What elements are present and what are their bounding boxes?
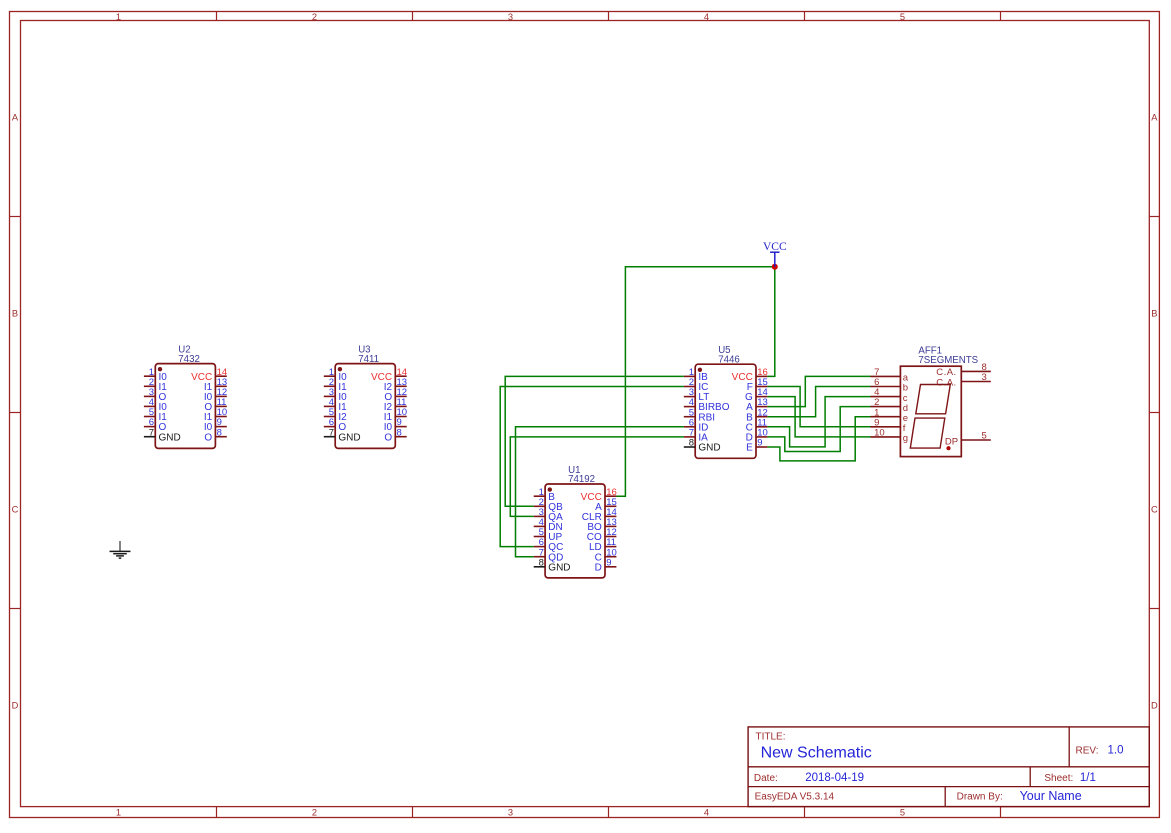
- svg-text:1: 1: [116, 12, 121, 22]
- svg-text:5: 5: [900, 807, 905, 817]
- svg-text:E: E: [746, 443, 753, 454]
- svg-text:3: 3: [508, 807, 513, 817]
- svg-text:GND: GND: [548, 562, 570, 573]
- svg-text:3: 3: [508, 12, 513, 22]
- svg-text:2: 2: [312, 12, 317, 22]
- svg-text:1/1: 1/1: [1080, 772, 1096, 784]
- svg-text:2: 2: [312, 807, 317, 817]
- svg-text:TITLE:: TITLE:: [756, 732, 786, 743]
- svg-text:8: 8: [539, 557, 544, 568]
- svg-text:3: 3: [982, 372, 987, 383]
- svg-text:C: C: [1151, 505, 1158, 515]
- svg-text:D: D: [1151, 701, 1158, 711]
- svg-text:B: B: [1151, 309, 1157, 319]
- svg-text:8: 8: [689, 438, 694, 449]
- svg-text:Drawn By:: Drawn By:: [957, 792, 1003, 803]
- svg-text:7411: 7411: [358, 354, 379, 365]
- svg-text:8: 8: [397, 427, 402, 438]
- svg-text:C: C: [12, 505, 19, 515]
- svg-text:5: 5: [900, 12, 905, 22]
- svg-text:g: g: [903, 433, 908, 444]
- svg-text:D: D: [12, 701, 19, 711]
- svg-text:A: A: [1151, 113, 1158, 123]
- svg-text:Sheet:: Sheet:: [1044, 773, 1073, 784]
- svg-text:4: 4: [704, 807, 709, 817]
- svg-text:7446: 7446: [718, 354, 740, 365]
- svg-text:5: 5: [982, 431, 987, 442]
- svg-text:C.A.: C.A.: [936, 367, 956, 378]
- svg-text:1: 1: [116, 807, 121, 817]
- svg-text:B: B: [12, 309, 18, 319]
- svg-text:2018-04-19: 2018-04-19: [805, 772, 864, 784]
- svg-text:DP: DP: [945, 436, 958, 447]
- svg-text:7: 7: [149, 427, 154, 438]
- svg-text:7SEGMENTS: 7SEGMENTS: [918, 355, 978, 366]
- svg-text:EasyEDA V5.3.14: EasyEDA V5.3.14: [755, 792, 835, 803]
- svg-text:A: A: [12, 113, 19, 123]
- svg-text:C.A.: C.A.: [936, 378, 956, 389]
- svg-text:7432: 7432: [178, 354, 200, 365]
- svg-text:VCC: VCC: [763, 241, 787, 253]
- svg-text:GND: GND: [338, 432, 360, 443]
- svg-text:New Schematic: New Schematic: [761, 744, 872, 761]
- svg-text:REV:: REV:: [1076, 745, 1099, 756]
- svg-text:9: 9: [606, 557, 611, 568]
- svg-text:GND: GND: [159, 432, 181, 443]
- svg-text:GND: GND: [698, 443, 720, 454]
- svg-text:4: 4: [704, 12, 709, 22]
- svg-text:O: O: [384, 432, 392, 443]
- svg-text:Your Name: Your Name: [1020, 789, 1082, 803]
- svg-text:7: 7: [329, 427, 334, 438]
- svg-text:Date:: Date:: [754, 773, 778, 784]
- svg-text:9: 9: [757, 438, 762, 449]
- svg-text:10: 10: [874, 428, 885, 439]
- svg-text:D: D: [595, 562, 602, 573]
- svg-text:74192: 74192: [568, 474, 595, 485]
- svg-text:O: O: [204, 432, 212, 443]
- svg-text:1.0: 1.0: [1108, 745, 1124, 757]
- svg-text:8: 8: [217, 427, 222, 438]
